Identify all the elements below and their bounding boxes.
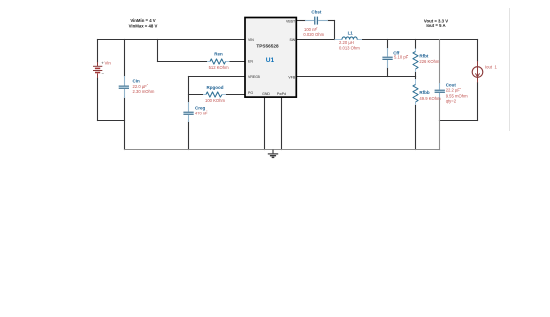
svg-text:Cbst: Cbst xyxy=(311,10,322,15)
svg-text:Rfbb: Rfbb xyxy=(419,90,429,95)
svg-text:2.20 µH: 2.20 µH xyxy=(339,40,354,45)
svg-text:Rfbt: Rfbt xyxy=(419,53,428,58)
svg-text:0.013 Ohm: 0.013 Ohm xyxy=(339,45,360,50)
svg-text:VREG5: VREG5 xyxy=(248,75,260,79)
svg-text:2.30 mOhm: 2.30 mOhm xyxy=(133,89,155,94)
svg-text:512 KOhm: 512 KOhm xyxy=(209,65,230,70)
svg-text:PG: PG xyxy=(248,91,253,95)
svg-text:0.020 Ohm: 0.020 Ohm xyxy=(303,32,324,37)
svg-text:EN: EN xyxy=(248,60,253,64)
svg-text:Ren: Ren xyxy=(214,52,223,57)
svg-text:100 KOhm: 100 KOhm xyxy=(205,98,226,103)
svg-text:L1: L1 xyxy=(348,30,354,35)
svg-text:VFB: VFB xyxy=(288,75,295,79)
svg-text:Vin: Vin xyxy=(105,61,112,66)
svg-text:qty=2: qty=2 xyxy=(446,98,457,103)
svg-text:PwPd: PwPd xyxy=(277,92,286,96)
svg-text:GND: GND xyxy=(262,92,270,96)
svg-text:Rpgood: Rpgood xyxy=(207,85,224,90)
svg-text:TPS56528: TPS56528 xyxy=(256,44,279,49)
svg-text:226 KOhm: 226 KOhm xyxy=(419,59,440,64)
svg-text:Iout = 5 A: Iout = 5 A xyxy=(426,23,445,28)
svg-text:VinMax = 48 V: VinMax = 48 V xyxy=(129,23,158,28)
svg-text:Iout: Iout xyxy=(485,65,493,70)
svg-text:U1: U1 xyxy=(266,57,275,64)
svg-text:49.9 KOhm: 49.9 KOhm xyxy=(419,96,441,101)
svg-text:VBST: VBST xyxy=(286,19,296,23)
svg-text:SW: SW xyxy=(290,38,296,42)
svg-text:22.2 µF: 22.2 µF xyxy=(446,88,461,93)
svg-text:VIN: VIN xyxy=(248,38,254,42)
